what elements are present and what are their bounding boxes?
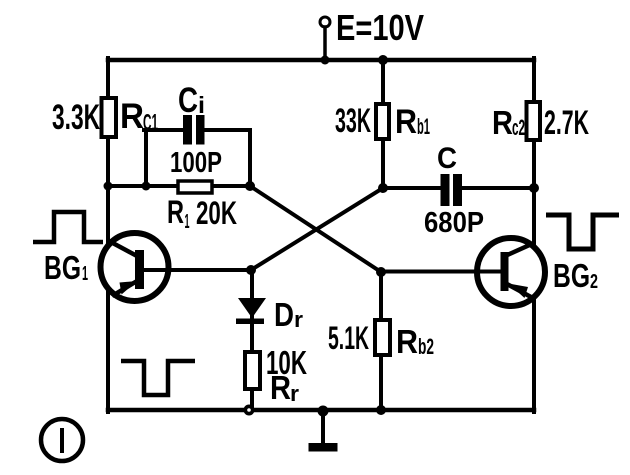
resistor Rc2	[527, 102, 541, 140]
label BG1	[44, 249, 88, 286]
wire BG1 base net	[108, 184, 250, 188]
svg-text:R: R	[395, 103, 417, 141]
svg-text:BG: BG	[553, 257, 590, 294]
capacitor C1	[183, 115, 205, 145]
svg-text:C1: C1	[143, 109, 158, 135]
svg-text:100P: 100P	[170, 147, 222, 179]
svg-text:C: C	[178, 81, 198, 120]
svg-text:R: R	[396, 323, 418, 360]
svg-text:680P: 680P	[424, 207, 484, 239]
label R1 20K	[167, 194, 237, 233]
wire C1 branch top left	[144, 128, 183, 132]
node BG1 base junction	[246, 265, 256, 275]
resistor R1	[178, 181, 212, 193]
svg-text:r: r	[294, 307, 303, 332]
waveform BG1 output pulse	[121, 361, 195, 395]
wire E supply stub	[323, 27, 327, 60]
svg-text:2.7K: 2.7K	[544, 104, 589, 142]
svg-text:b1: b1	[417, 114, 430, 139]
diode Dr	[236, 298, 266, 324]
svg-text:i: i	[198, 92, 205, 118]
label C1	[178, 81, 205, 120]
svg-text:r: r	[290, 381, 299, 406]
svg-text:R: R	[120, 97, 144, 136]
wire BG2 base net left	[383, 186, 441, 190]
svg-text:20K: 20K	[196, 195, 237, 231]
svg-text:b2: b2	[418, 334, 434, 359]
wire C1 branch top right	[204, 128, 250, 132]
wire bottom ground rail	[108, 408, 534, 413]
ground	[309, 443, 338, 452]
label Rr	[270, 369, 299, 406]
wire left column	[106, 58, 110, 412]
wire diode Dr column	[250, 270, 254, 410]
waveform BG2 output pulse	[546, 215, 619, 249]
label Rc1	[120, 97, 158, 136]
svg-text:R: R	[270, 369, 291, 406]
wire Rb1 column	[381, 60, 385, 188]
waveform input pulse at BG1	[33, 212, 103, 242]
wire Rb2 column	[379, 272, 383, 410]
node Rc1 bottom junction	[104, 182, 113, 191]
svg-text:33K: 33K	[335, 102, 371, 140]
svg-text:R: R	[492, 104, 513, 141]
node ground junction	[318, 406, 329, 417]
node Rb1 top junction	[378, 55, 388, 65]
resistor Rr	[245, 352, 260, 389]
node Rb2 bottom junction	[376, 405, 386, 415]
svg-text:E=10V: E=10V	[336, 7, 424, 48]
wire BG2 base net right	[462, 186, 534, 190]
node Rb1 bottom junction	[378, 183, 388, 193]
wire cross diagonal right-to-left	[251, 188, 383, 270]
figure number 1	[41, 419, 83, 461]
label Rb1	[395, 103, 430, 141]
resistor Rb1	[376, 104, 389, 139]
svg-text:R: R	[167, 194, 184, 230]
node BG2 base junction	[376, 267, 386, 277]
svg-text:3.3K: 3.3K	[52, 98, 100, 137]
svg-text:5.1K: 5.1K	[328, 320, 369, 356]
wire C1 branch left leg	[144, 130, 148, 186]
wire ground stub	[321, 410, 325, 442]
node BG1 collector net junction	[245, 181, 255, 191]
label Rc2	[492, 104, 525, 141]
resistor Rc1	[102, 98, 117, 137]
node supply E junction	[321, 56, 330, 65]
transistor BG1	[101, 233, 251, 301]
label BG2	[553, 257, 598, 294]
resistor Rb2	[375, 320, 390, 355]
capacitor C	[441, 174, 463, 206]
svg-text:1: 1	[82, 263, 88, 285]
node C1 left junction	[142, 182, 151, 191]
node Rc2 bottom junction	[529, 183, 539, 193]
svg-text:c2: c2	[512, 115, 525, 140]
node Rr bottom junction	[244, 405, 255, 416]
label Dr	[274, 296, 303, 333]
svg-text:1: 1	[185, 211, 190, 233]
svg-text:2: 2	[590, 271, 598, 293]
power terminal E	[320, 17, 330, 27]
wire cross diagonal left-to-right	[250, 186, 381, 272]
svg-text:BG: BG	[44, 249, 81, 286]
wire top supply rail	[108, 58, 534, 63]
label Rb2	[396, 323, 434, 360]
wire right column	[532, 58, 536, 412]
svg-text:D: D	[274, 296, 294, 333]
svg-text:C: C	[437, 142, 457, 175]
transistor BG2	[381, 238, 545, 306]
wire C1 branch right leg	[248, 130, 252, 186]
